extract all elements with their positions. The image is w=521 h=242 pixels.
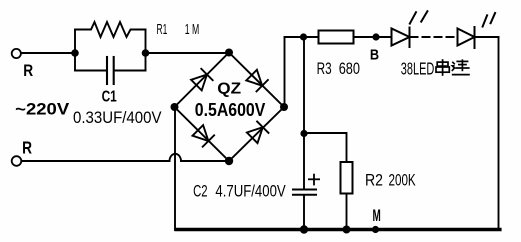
capacitor C2 plus sign bbox=[309, 175, 319, 185]
svg-text:0.5A600V: 0.5A600V bbox=[195, 99, 266, 120]
node rail M bbox=[372, 226, 379, 233]
svg-text:R2: R2 bbox=[365, 171, 383, 189]
wire R2 lower lead bbox=[346, 194, 348, 231]
svg-text:B: B bbox=[370, 48, 379, 64]
diode D4 bottom-right (anode bottom node, cathode right node) bbox=[247, 122, 269, 144]
svg-text:~220V: ~220V bbox=[15, 101, 69, 119]
diode D2 top-right (anode top node, cathode right node) bbox=[246, 70, 268, 92]
svg-text:4.7UF/400V: 4.7UF/400V bbox=[215, 183, 285, 201]
wire lower input to hop bbox=[22, 160, 170, 162]
wire dashed LED string bbox=[411, 36, 457, 38]
wire bottom rail (thick) bbox=[176, 228, 500, 232]
node top rail C2 branch bbox=[300, 33, 307, 40]
svg-text:R3: R3 bbox=[317, 60, 332, 78]
wire right vertical down bbox=[498, 37, 500, 230]
wire C1 left lead bbox=[75, 70, 106, 72]
capacitor C1 plates bbox=[107, 57, 114, 84]
terminal lower input bbox=[12, 156, 22, 166]
node RC right bbox=[142, 49, 150, 57]
LED2 diode triangle and bar bbox=[458, 27, 475, 48]
svg-text:M: M bbox=[373, 206, 381, 225]
terminal upper input bbox=[12, 49, 21, 58]
svg-text:0.33UF/400V: 0.33UF/400V bbox=[73, 109, 162, 127]
node B dot bbox=[372, 33, 379, 40]
wire C2 lower lead bbox=[303, 196, 305, 231]
svg-text:200K: 200K bbox=[389, 171, 416, 189]
svg-text:38LED: 38LED bbox=[401, 58, 435, 78]
LED1 diode triangle and bar bbox=[392, 28, 410, 48]
node rail C2 bbox=[300, 225, 308, 233]
label lian (连) drawn glyph bbox=[452, 59, 470, 74]
wire bridge right node up to top rail bbox=[284, 37, 286, 107]
LED2 light rays bbox=[483, 13, 496, 27]
svg-text:R: R bbox=[23, 61, 33, 80]
svg-text:C2: C2 bbox=[193, 183, 208, 201]
node rail R2 bbox=[343, 226, 351, 234]
node bridge top bbox=[225, 49, 233, 57]
node bridge left bbox=[171, 103, 179, 111]
wire RC right branch vertical bbox=[145, 30, 147, 71]
capacitor C2 plates bbox=[293, 190, 316, 195]
resistor R1 zigzag bbox=[75, 22, 146, 37]
wire C1 right lead bbox=[115, 70, 146, 72]
diode D3 bottom-left (anode left node, cathode bottom node) bbox=[193, 125, 215, 147]
wire R3 to node B and LED1 bbox=[354, 36, 392, 38]
wire hop over vertical bbox=[170, 154, 182, 161]
diode D1 top-left (anode left node, cathode top node) bbox=[191, 69, 213, 91]
svg-text:R: R bbox=[22, 137, 32, 157]
svg-text:1 M: 1 M bbox=[185, 22, 200, 38]
svg-text:C1: C1 bbox=[102, 89, 117, 106]
wire hop to bridge bottom node bbox=[181, 160, 229, 162]
LED1 light rays bbox=[410, 11, 428, 23]
node C2/R2 branch bbox=[300, 130, 307, 137]
resistor R3 box bbox=[319, 31, 354, 44]
wire RC to bridge top node bbox=[146, 52, 230, 54]
wire upper input to RC node bbox=[21, 52, 75, 54]
wire LED2 to right corner bbox=[475, 36, 499, 38]
wire RC left branch vertical bbox=[74, 30, 76, 71]
wire top rail to R3 bbox=[285, 36, 319, 38]
wire bridge left node down to bottom rail bbox=[174, 107, 176, 230]
resistor R2 box bbox=[341, 162, 353, 194]
svg-text:680: 680 bbox=[339, 60, 360, 78]
node bridge bottom bbox=[225, 157, 233, 165]
wire top rail junction to C2 vertical upper bbox=[303, 37, 305, 189]
wire branch to R2 bbox=[304, 133, 347, 162]
node RC left bbox=[71, 49, 79, 57]
bridge QZ diamond sides bbox=[175, 53, 285, 162]
svg-text:QZ: QZ bbox=[217, 80, 241, 97]
node bridge right bbox=[280, 103, 288, 111]
svg-text:R1: R1 bbox=[157, 22, 168, 38]
label chuan (串) drawn glyph bbox=[436, 59, 449, 76]
